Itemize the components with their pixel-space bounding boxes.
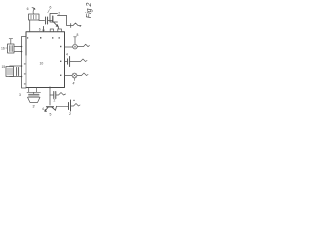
figure label Fig 2 xyxy=(86,3,93,19)
wire Q2 to C6 xyxy=(57,105,69,107)
svg-text:3': 3' xyxy=(33,105,36,109)
wire from C1 down to U1 xyxy=(29,20,31,32)
svg-text:2: 2 xyxy=(58,12,60,16)
wire C2 to Q1 xyxy=(48,20,53,22)
mixer circle xyxy=(73,44,78,49)
transducer B1 bottom-left xyxy=(27,88,41,103)
inductor L5 xyxy=(77,44,89,46)
branch A right y=47 xyxy=(65,46,73,48)
wire C1 to C2 xyxy=(39,20,45,22)
svg-text:8: 8 xyxy=(77,33,79,37)
wire left bus xyxy=(22,37,27,89)
capacitor C5 branch xyxy=(50,94,53,96)
branch C right y=75.5 xyxy=(65,75,73,77)
svg-text:6: 6 xyxy=(50,6,52,10)
wire down from U1 bottom xyxy=(49,88,51,106)
capacitor C6 xyxy=(68,103,70,110)
wire down to circle xyxy=(74,37,77,45)
svg-text:10: 10 xyxy=(40,62,44,66)
junction tick xyxy=(70,24,72,28)
capacitor C2 xyxy=(46,17,48,24)
crystal Y1 left xyxy=(8,39,22,53)
trimmer capacitor C1 top-left xyxy=(29,8,40,20)
svg-text:2: 2 xyxy=(69,112,71,116)
svg-text:6: 6 xyxy=(27,7,29,11)
inductor L6 xyxy=(70,59,87,62)
junction dots bus xyxy=(21,46,23,78)
svg-text:3: 3 xyxy=(19,93,21,97)
IC block U1 xyxy=(26,32,65,88)
pin marks inside right edge xyxy=(60,46,61,76)
svg-text:Fig 2: Fig 2 xyxy=(86,3,93,19)
svg-text:4: 4 xyxy=(42,107,44,111)
branch B right y=61.5 xyxy=(65,61,68,63)
pin marks inside top edge xyxy=(27,37,60,39)
inductor L3 xyxy=(56,93,66,96)
svg-text:16: 16 xyxy=(1,47,5,51)
inductor L1 xyxy=(73,23,81,27)
svg-text:5: 5 xyxy=(50,113,52,117)
transistor Q2 xyxy=(45,106,57,111)
junction dot bottom edge xyxy=(49,87,51,89)
svg-text:6: 6 xyxy=(39,28,41,32)
stray mark xyxy=(73,100,75,101)
transistor Q1 xyxy=(50,14,67,29)
svg-text:4': 4' xyxy=(73,82,76,86)
oscillator circle xyxy=(72,73,77,78)
pin ticks left edge xyxy=(24,63,26,84)
svg-text:4: 4 xyxy=(66,53,68,57)
svg-text:15: 15 xyxy=(2,65,6,69)
resonator network lower-left xyxy=(6,66,22,77)
capacitor C7 xyxy=(67,59,69,64)
svg-text:2: 2 xyxy=(54,99,56,103)
pins on U1 top edge xyxy=(43,27,62,32)
inductor L4 xyxy=(71,104,81,107)
inductor L7 xyxy=(77,73,88,76)
wire collector to right xyxy=(67,16,74,26)
